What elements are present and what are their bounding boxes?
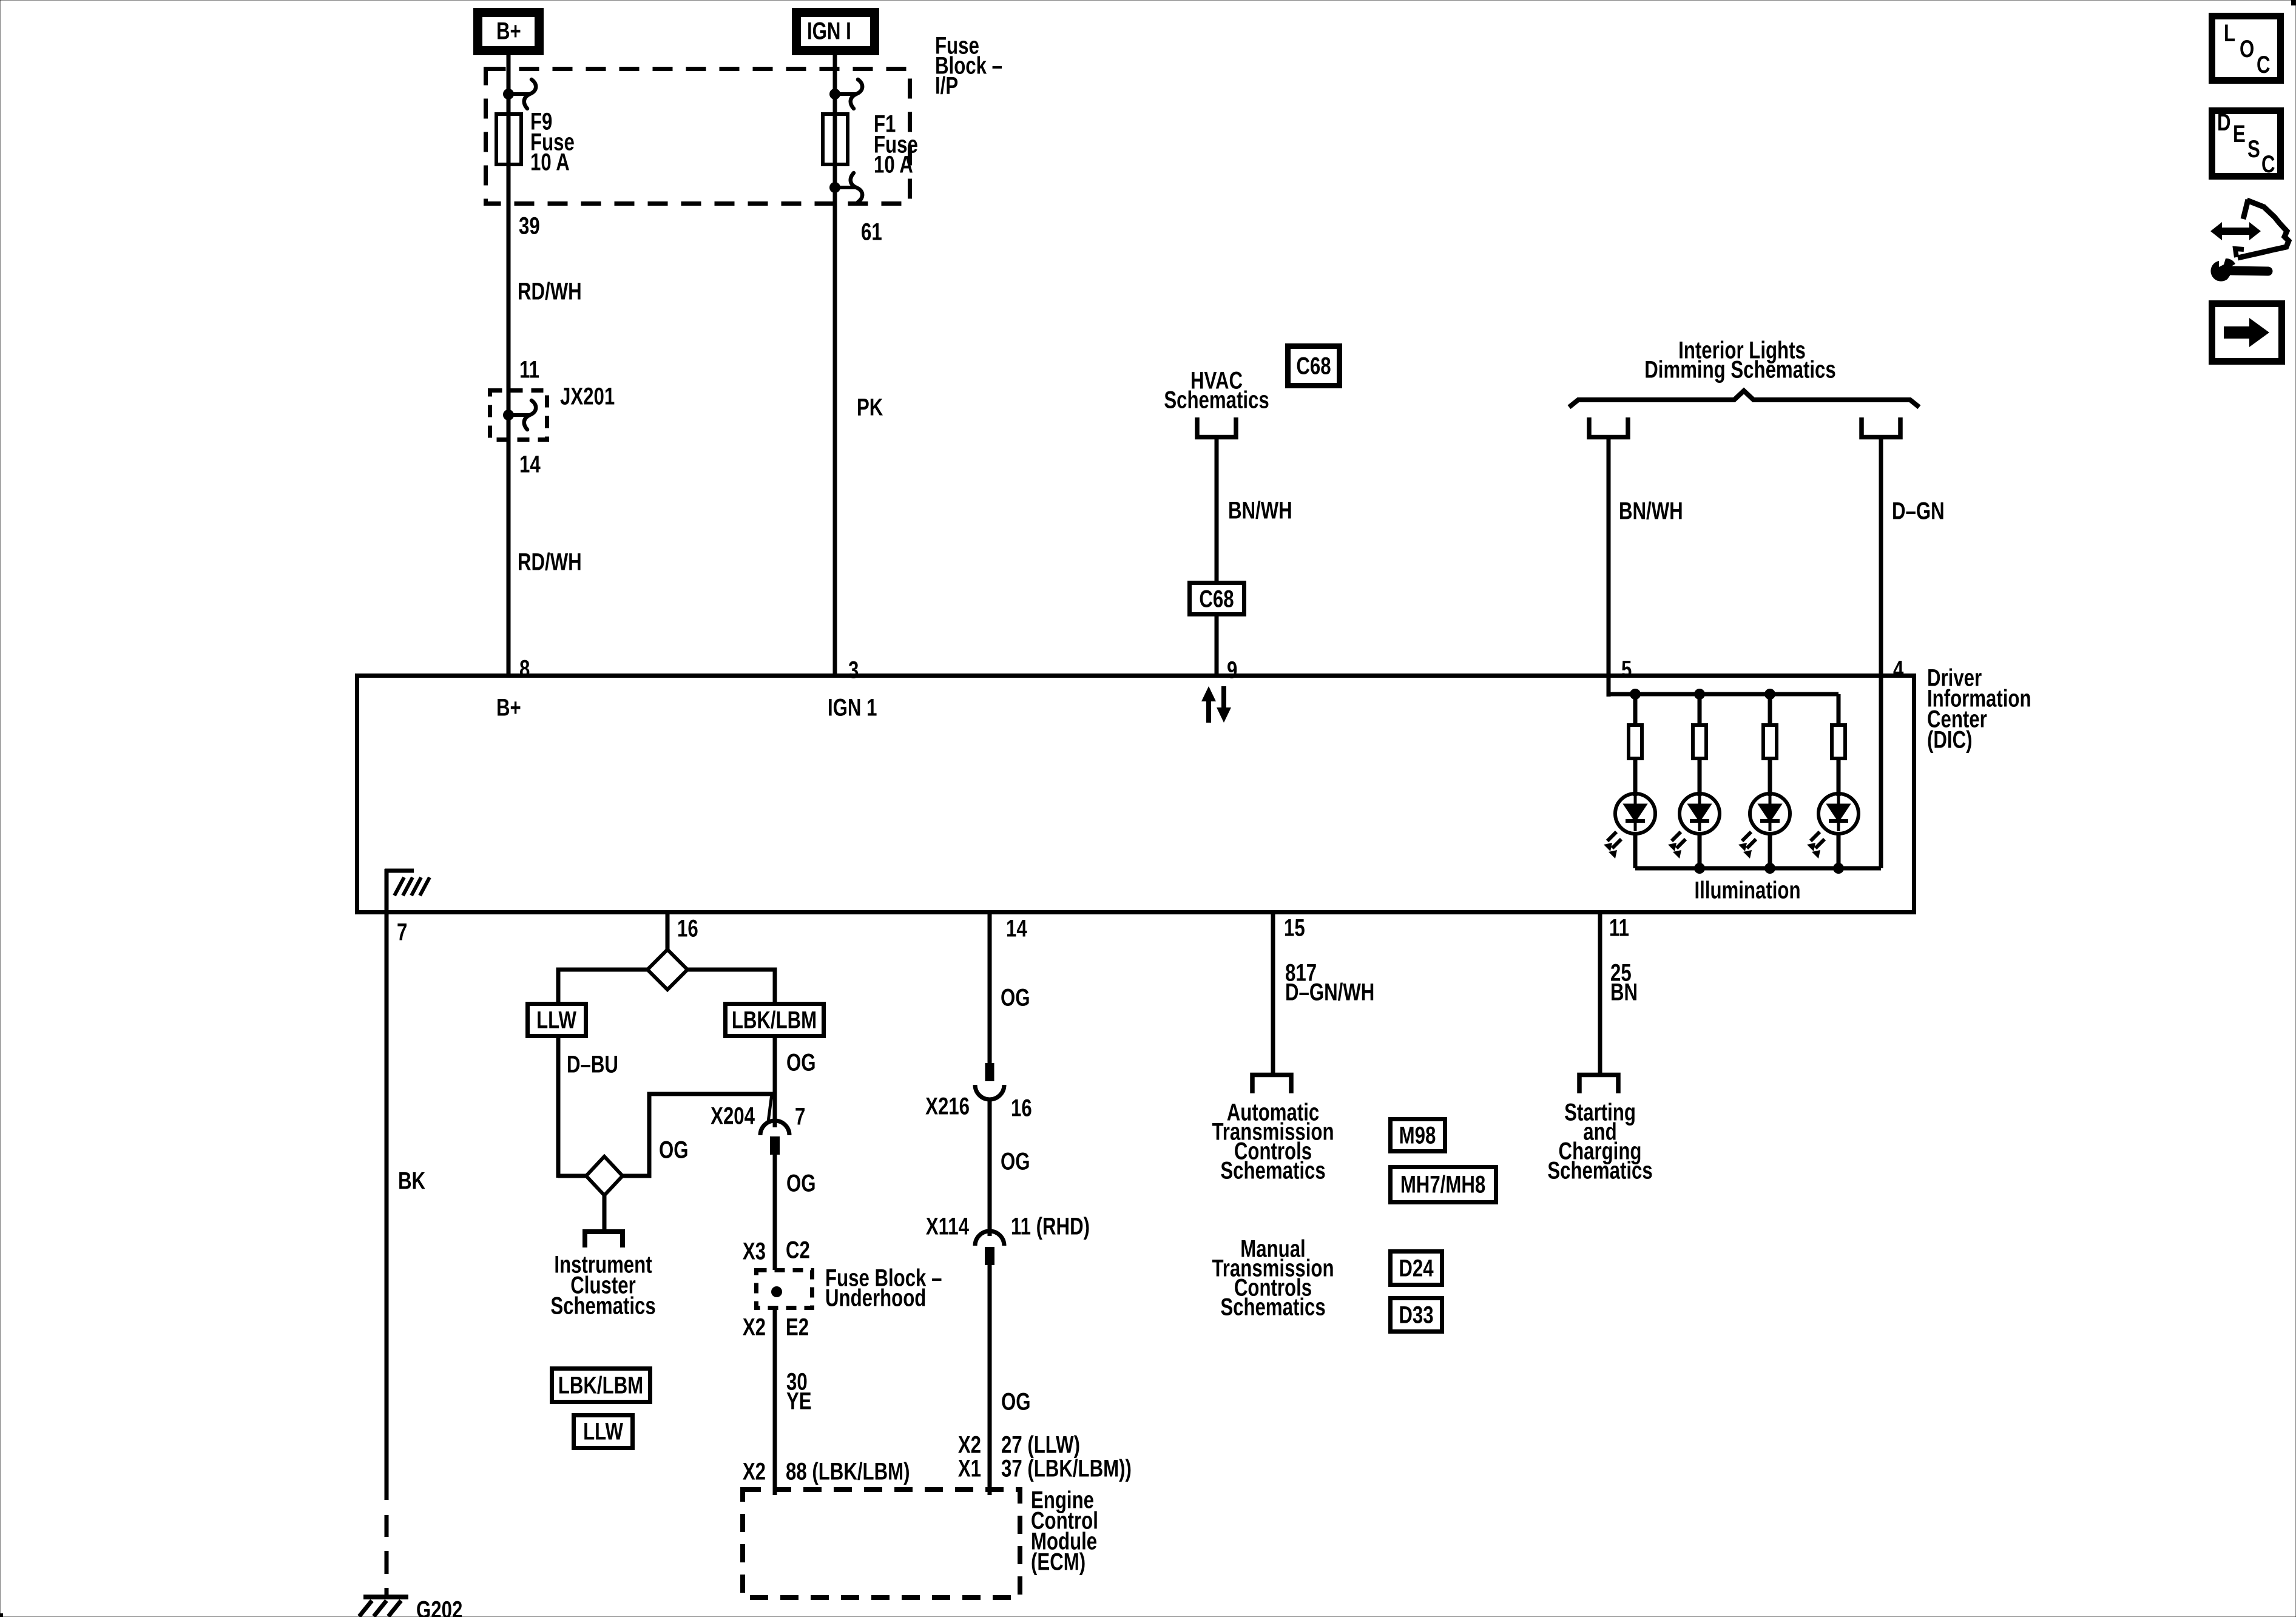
off-page connector interior lights (left) (1589, 417, 1628, 437)
label Engine Control Module (ECM) (1031, 1487, 1098, 1576)
label G202 (416, 1596, 462, 1617)
label X216 (925, 1093, 970, 1120)
corner mark bottom-left (0, 1613, 3, 1617)
pin 5 label (1621, 656, 1632, 683)
net label box LLW (reference) (574, 1416, 633, 1448)
svg-text:X204: X204 (711, 1102, 755, 1130)
DIC bidirectional signal arrows (pin 9) (1201, 686, 1231, 723)
resistor R2 (illumination) (1693, 694, 1706, 758)
svg-text:X3: X3 (743, 1238, 766, 1265)
resistor R1 (illumination) (1629, 694, 1642, 758)
svg-text:61: 61 (861, 218, 882, 246)
svg-text:LLW: LLW (536, 1007, 576, 1034)
power symbol B+ (box) (478, 13, 539, 51)
connector C68 reference box (1288, 346, 1340, 386)
wire to LLW splice leg (558, 970, 647, 1004)
pin 14 label (1006, 915, 1027, 942)
brace over interior lights wires (1569, 391, 1919, 407)
svg-text:4: 4 (1893, 656, 1903, 683)
label F1 Fuse 10 A (874, 110, 918, 178)
Driver Information Center (DIC) box (357, 676, 1914, 913)
label X3 (743, 1238, 766, 1265)
net label box LBK/LBM (726, 1004, 824, 1036)
dashed wire to ground (385, 1515, 389, 1597)
fuse F9 body (496, 114, 521, 164)
label HVAC Schematics (1164, 367, 1269, 414)
svg-text:Underhood: Underhood (825, 1284, 926, 1312)
svg-text:YE: YE (786, 1388, 812, 1415)
svg-text:(DIC): (DIC) (1927, 726, 1972, 754)
label X2 (88) (743, 1458, 766, 1485)
svg-text:Schematics: Schematics (1220, 1157, 1325, 1184)
svg-text:OG: OG (786, 1170, 816, 1197)
svg-text:D–BU: D–BU (567, 1051, 618, 1078)
wire OG below LBK/LBM box (773, 1038, 777, 1127)
pin 15 label (1284, 914, 1305, 942)
svg-text:9: 9 (1227, 657, 1237, 684)
wire label OG (below X204) (786, 1170, 816, 1197)
svg-text:5: 5 (1621, 656, 1632, 683)
wire from diamond 2 to instrument cluster (603, 1195, 607, 1234)
svg-text:B+: B+ (496, 694, 521, 721)
svg-text:D: D (2217, 109, 2231, 136)
label Fuse Block - Underhood (825, 1264, 942, 1312)
svg-text:10 A: 10 A (874, 151, 913, 178)
svg-text:IGN I: IGN I (807, 18, 851, 45)
wire label RD/WH (lower) (518, 549, 582, 576)
wire IGN I from IGN box to DIC pin 3 (833, 55, 837, 673)
wire OG from DIC pin 14 (988, 914, 992, 1063)
svg-text:(ECM): (ECM) (1031, 1548, 1086, 1576)
svg-text:11: 11 (519, 356, 539, 383)
svg-text:3: 3 (848, 657, 859, 684)
svg-text:BN/WH: BN/WH (1619, 498, 1683, 525)
label Instrument Cluster Schematics (550, 1251, 655, 1320)
DIC illumination return rail (1635, 863, 1881, 874)
svg-text:O: O (2240, 35, 2254, 62)
svg-text:RD/WH: RD/WH (518, 278, 582, 305)
svg-text:39: 39 (519, 212, 540, 240)
svg-text:E2: E2 (786, 1314, 809, 1341)
label Automatic Transmission Controls Schematics (1212, 1099, 1334, 1184)
wire label 817 D-GN/WH (1285, 959, 1374, 1006)
label X1 (37) (958, 1455, 981, 1482)
off-page connector instrument cluster (585, 1232, 623, 1247)
LED D2 (illumination) (1668, 760, 1720, 868)
LED D4 (illumination) (1807, 760, 1859, 868)
svg-text:X2: X2 (958, 1431, 981, 1459)
off-page connector starting and charging (1579, 1075, 1618, 1094)
svg-text:OG: OG (1001, 1388, 1031, 1416)
off-page connector to HVAC schematics (1197, 417, 1236, 437)
wire from diamond 2 to OG riser (623, 1094, 773, 1176)
svg-text:X2: X2 (743, 1458, 766, 1485)
svg-text:C: C (2261, 150, 2275, 178)
icon forward arrow box (2212, 304, 2282, 362)
corner mark top-right (2291, 0, 2296, 5)
reference box D33 (1391, 1298, 1442, 1332)
reference box M98 (1391, 1119, 1445, 1152)
wire label 30 YE (786, 1368, 812, 1415)
svg-text:C68: C68 (1199, 586, 1234, 613)
label 88 (LBK/LBM) (786, 1458, 910, 1485)
svg-text:14: 14 (1006, 915, 1027, 942)
svg-text:X2: X2 (743, 1314, 766, 1341)
fuse F9 terminal (junction dot and element curl) (503, 79, 536, 109)
svg-text:G202: G202 (416, 1596, 462, 1617)
fuse block underhood dashed box (757, 1271, 812, 1308)
svg-text:14: 14 (519, 451, 541, 478)
label X204 (711, 1102, 755, 1130)
svg-text:X114: X114 (926, 1213, 969, 1240)
pin 16 label (X216) (1011, 1095, 1032, 1122)
DIC internal ground symbol (pin 7) (385, 869, 430, 914)
pin 3 label (848, 657, 859, 684)
svg-text:D24: D24 (1399, 1255, 1433, 1282)
wire label OG (lower) (1001, 1388, 1031, 1416)
wire from DIC pin 15 (1271, 914, 1275, 1075)
svg-text:LBK/LBM: LBK/LBM (558, 1372, 643, 1399)
icon LOC box (2212, 16, 2281, 81)
DIC internal label IGN 1 (828, 694, 877, 721)
label Starting and Charging Schematics (1547, 1099, 1652, 1184)
off-page connector interior lights (right) (1862, 417, 1900, 437)
label Illumination (1694, 877, 1800, 904)
label Interior Lights Dimming Schematics (1644, 337, 1835, 383)
pin 4 label (1893, 656, 1903, 683)
svg-text:8: 8 (519, 655, 530, 683)
svg-text:16: 16 (677, 915, 698, 942)
reference box MH7/MH8 (1391, 1167, 1496, 1203)
svg-text:16: 16 (1011, 1095, 1032, 1122)
junction dot in fuse block underhood (771, 1286, 782, 1297)
net label box LBK/LBM (reference) (552, 1369, 650, 1402)
svg-text:PK: PK (857, 394, 883, 421)
label C2 (786, 1237, 810, 1264)
wire B+ from B+ box to DIC pin 8 (507, 55, 511, 673)
icon DESC box (2212, 109, 2281, 178)
svg-text:X1: X1 (958, 1455, 981, 1482)
LED D3 (illumination) (1738, 760, 1790, 868)
svg-text:Schematics: Schematics (1220, 1294, 1325, 1321)
wire D-GN to DIC pin 4 (1879, 437, 1883, 673)
svg-text:D–GN: D–GN (1892, 498, 1945, 525)
label X2 (E2) (743, 1314, 766, 1341)
ground G202 symbol (359, 1597, 408, 1616)
wire label RD/WH (upper) (518, 278, 582, 305)
svg-text:BK: BK (398, 1167, 425, 1195)
wire YE from fuse block to ECM (773, 1310, 777, 1495)
in-line connector X204 (760, 1094, 789, 1155)
wire LLW to splice diamond 2 (558, 1174, 588, 1178)
net label box LLW (528, 1004, 586, 1036)
splice diamond (pin 16) (647, 950, 687, 990)
pin 61 label (861, 218, 882, 246)
pin 7 label (X204) (795, 1103, 805, 1130)
pin 11 label (JX201) (519, 356, 539, 383)
pin 39 label (519, 212, 540, 240)
svg-text:OG: OG (1001, 984, 1030, 1011)
svg-text:E: E (2233, 120, 2246, 147)
svg-text:LLW: LLW (583, 1418, 623, 1445)
wire label OG (riser) (659, 1136, 689, 1164)
svg-text:10 A: 10 A (530, 149, 570, 176)
wire label BN/WH (dimming) (1619, 498, 1683, 525)
svg-text:IGN 1: IGN 1 (828, 694, 877, 721)
pin 8 label (519, 655, 530, 683)
pin 16 label (677, 915, 698, 942)
DIC internal label B+ (496, 694, 521, 721)
wire BK from DIC pin 7 to G202 (385, 914, 389, 1500)
label F9 Fuse 10 A (530, 108, 575, 176)
Engine Control Module dashed box (743, 1490, 1020, 1598)
wire BN/WH from HVAC to C68 (1215, 437, 1219, 673)
svg-text:X216: X216 (925, 1093, 970, 1120)
in-line connector X114 (975, 1231, 1004, 1265)
svg-text:OG: OG (659, 1136, 689, 1164)
wire from DIC pin 11 (1598, 914, 1602, 1075)
in-line connector X216 (975, 1063, 1004, 1099)
svg-text:L: L (2224, 19, 2235, 47)
wire BN/WH to DIC pin 5 (1607, 437, 1611, 673)
wire label OG (mid) (1001, 1148, 1030, 1175)
svg-text:JX201: JX201 (560, 383, 615, 410)
svg-text:M98: M98 (1399, 1122, 1436, 1149)
svg-text:27 (LLW): 27 (LLW) (1001, 1431, 1080, 1459)
svg-text:11: 11 (1609, 914, 1629, 942)
wire label D-BU (567, 1051, 618, 1078)
wire D-GN inside DIC (pin 4 return) (1879, 673, 1883, 868)
icon vehicle with wrench (2210, 200, 2289, 282)
wire from DIC pin 16 (666, 914, 670, 951)
pin 11 label (1609, 914, 1629, 942)
fuse F1 top terminal (dot and curl) (829, 79, 862, 109)
svg-text:Schematics: Schematics (1547, 1157, 1652, 1184)
svg-text:C2: C2 (786, 1237, 810, 1264)
wire label OG (LBK/LBM) (786, 1049, 816, 1076)
label X2 (27) (958, 1431, 981, 1459)
label 27 (LLW) (1001, 1431, 1080, 1459)
wire label PK (857, 394, 883, 421)
wire OG from X114 to ECM (988, 1265, 992, 1495)
svg-text:OG: OG (786, 1049, 816, 1076)
wire label BK (398, 1167, 425, 1195)
wire OG between X216 and X114 (988, 1099, 992, 1236)
svg-text:BN: BN (1610, 979, 1638, 1006)
svg-text:S: S (2247, 135, 2260, 163)
splice JX201 junction dot and curl (503, 400, 536, 430)
splice diamond 2 (586, 1156, 623, 1195)
svg-text:I/P: I/P (935, 72, 958, 100)
svg-text:C: C (2257, 51, 2271, 78)
svg-text:D–GN/WH: D–GN/WH (1285, 979, 1374, 1006)
svg-text:Schematics: Schematics (1164, 387, 1269, 414)
fuse block I/P dashed outline (486, 69, 910, 204)
svg-text:37 (LBK/LBM)): 37 (LBK/LBM)) (1001, 1455, 1132, 1482)
svg-text:11 (RHD): 11 (RHD) (1011, 1213, 1090, 1240)
svg-text:MH7/MH8: MH7/MH8 (1400, 1171, 1485, 1198)
svg-text:RD/WH: RD/WH (518, 549, 582, 576)
LED D1 (illumination) (1604, 760, 1655, 868)
label JX201 (560, 383, 615, 410)
resistor R3 (illumination) (1763, 694, 1777, 758)
svg-text:7: 7 (795, 1103, 805, 1130)
in-line connector C68 on wire (1190, 583, 1244, 615)
pin 11 (RHD) label (1011, 1213, 1090, 1240)
wire label BN/WH (HVAC) (1228, 497, 1292, 524)
svg-text:C68: C68 (1296, 353, 1331, 380)
pin 9 label (1227, 657, 1237, 684)
label Manual Transmission Controls Schematics (1212, 1235, 1334, 1321)
svg-text:LBK/LBM: LBK/LBM (732, 1007, 817, 1034)
wire label 25 BN (1610, 959, 1638, 1006)
label E2 (786, 1314, 809, 1341)
wire label OG (pin 14) (1001, 984, 1030, 1011)
pin 14 label (JX201) (519, 451, 541, 478)
label 37 (LBK/LBM)) (1001, 1455, 1132, 1482)
power symbol IGN I (box) (797, 13, 875, 51)
svg-text:Schematics: Schematics (550, 1292, 655, 1320)
label Fuse Block - I/P (935, 32, 1002, 100)
svg-text:BN/WH: BN/WH (1228, 497, 1292, 524)
fuse F1 body (823, 114, 848, 164)
svg-text:88 (LBK/LBM): 88 (LBK/LBM) (786, 1458, 910, 1485)
reference box D24 (1391, 1252, 1442, 1285)
svg-text:D33: D33 (1399, 1301, 1433, 1329)
fuse F1 bottom terminal (dot and curl) (829, 173, 862, 202)
svg-text:Dimming Schematics: Dimming Schematics (1644, 356, 1835, 383)
DIC illumination feed rail (pin 5) (1609, 673, 1838, 700)
svg-text:7: 7 (397, 919, 407, 946)
wire OG from X204 to fuse block underhood (773, 1155, 777, 1270)
off-page connector automatic transmission (1252, 1075, 1291, 1094)
splice JX201 dashed box (490, 391, 547, 440)
svg-text:Illumination: Illumination (1694, 877, 1800, 904)
resistor R4 (illumination) (1832, 694, 1845, 758)
svg-text:15: 15 (1284, 914, 1305, 942)
pin 7 label (397, 919, 407, 946)
wire label D-GN (1892, 498, 1945, 525)
wire D-BU below LLW box (556, 1038, 561, 1178)
label X114 (926, 1213, 969, 1240)
label Driver Information Center (DIC) (1927, 664, 2031, 754)
wire to LBK/LBM splice leg (687, 970, 775, 1004)
svg-text:B+: B+ (496, 18, 521, 45)
svg-text:OG: OG (1001, 1148, 1030, 1175)
